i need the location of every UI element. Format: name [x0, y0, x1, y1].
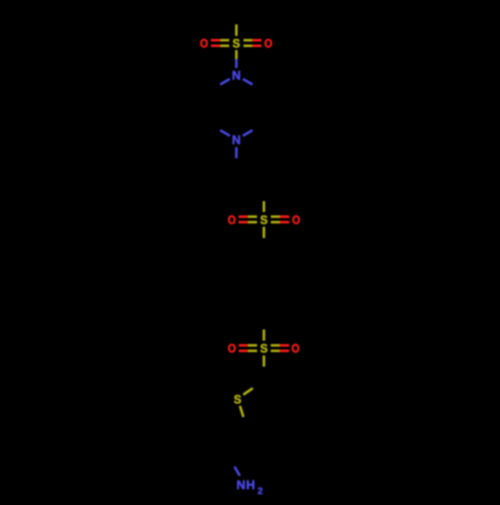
svg-text:N: N	[232, 133, 241, 147]
svg-text:H: H	[246, 478, 255, 492]
svg-text:S: S	[234, 392, 242, 406]
bond N2-C5 piperazine lower-right (blue half near N2)	[243, 130, 253, 136]
svg-text:O: O	[291, 342, 300, 356]
svg-text:S: S	[260, 213, 268, 227]
bond C2-C3 piperazine left side (carbon, invisible)	[207, 91, 210, 123]
svg-text:N: N	[236, 478, 245, 492]
bond N1-C6 piperazine upper-right (blue half near N1)	[243, 79, 253, 85]
bond C5-CH2 (carbon, invisible)	[229, 430, 248, 456]
benzene ring (carbon, invisible)	[236, 252, 292, 316]
bond S1=O right (double bond, olive half near S, red half near O)	[244, 40, 262, 46]
svg-text:O: O	[228, 213, 237, 227]
svg-text:O: O	[228, 342, 237, 356]
bond CH2-NH2 (blue half near N)	[235, 467, 240, 476]
bond C6-C5 piperazine right side (carbon, invisible)	[263, 91, 266, 123]
thiophene carbon bonds (invisible)	[248, 380, 290, 430]
svg-text:2: 2	[258, 486, 263, 496]
svg-text:O: O	[292, 213, 301, 227]
bond CH2-S2 (olive half near S2)	[263, 201, 266, 212]
bond C2-S1 thiophene (olive half near ring S)	[243, 388, 253, 395]
svg-text:S: S	[260, 342, 268, 356]
bond S2=O right (double bond)	[271, 217, 290, 223]
bond S1=O left (double bond, red half near O, olive half near S)	[211, 40, 229, 46]
bond S3=O right (double bond)	[271, 345, 289, 351]
bond N1-C2 piperazine upper-left (blue half near N1)	[220, 79, 230, 85]
bond CH3-S1 (methyl to sulfonyl S, upper half near S)	[235, 24, 238, 36]
svg-text:N: N	[232, 69, 241, 83]
svg-text:O: O	[264, 37, 273, 51]
bond CH2-CH2 chain (carbon, invisible)	[236, 172, 264, 188]
bond S2-C benzene top (olive half near S2)	[263, 227, 266, 238]
bond S1-N1 (olive half near S, blue half near N)	[235, 50, 238, 68]
bond N2-CH2 chain (blue half near N2)	[235, 147, 238, 158]
bond benzene bottom C-S3 (olive half near S3)	[263, 329, 266, 340]
bond N2-C3 piperazine lower-left (blue half near N2)	[220, 130, 230, 136]
bond S3=O left (double bond)	[239, 345, 257, 351]
bond S1-C5 thiophene (olive half near ring S)	[240, 406, 244, 417]
svg-text:O: O	[200, 37, 209, 51]
bond S3-C2 thiophene (olive half near S3)	[263, 356, 266, 367]
bond S2=O left (double bond)	[239, 217, 258, 223]
svg-text:S: S	[233, 37, 241, 51]
